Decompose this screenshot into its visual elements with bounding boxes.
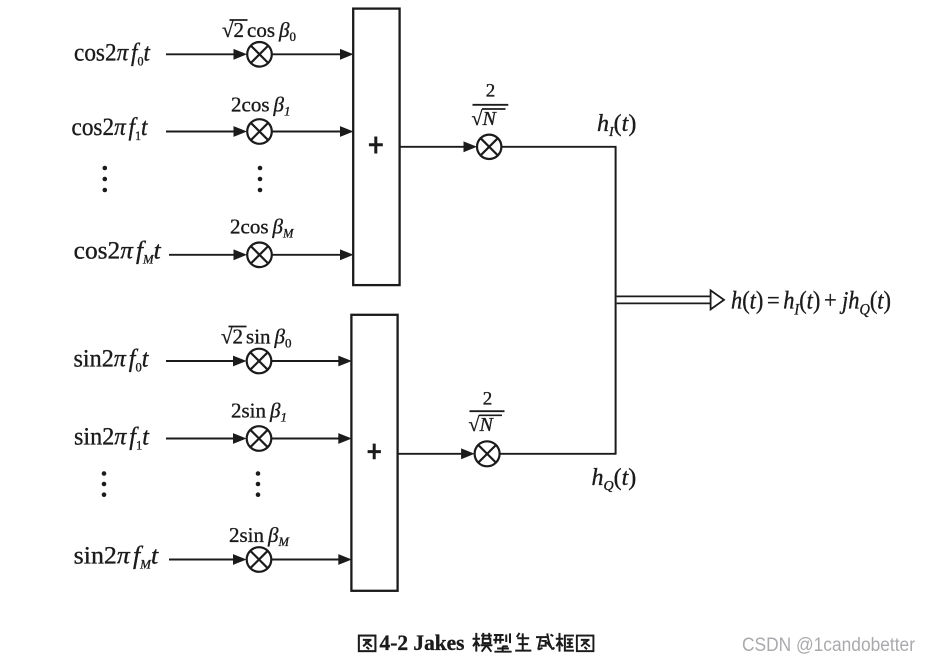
arrowhead into multiplier M3 (234, 249, 248, 260)
arrowhead into multiplier M7 (233, 554, 247, 565)
svg-text:√2sinβ0: √2sinβ0 (221, 325, 292, 351)
radical bar over N (lower) (479, 414, 502, 416)
caption char: tu (figure) (359, 636, 376, 652)
wire: M5 to summer S2 (271, 360, 340, 362)
wire: sin fM input (169, 559, 236, 561)
wire: sin f1 input (166, 438, 236, 440)
arrowhead into S1 (row 2) (340, 126, 354, 137)
arrowhead into S2 (row 2) (338, 433, 352, 444)
plus sign in S1 (369, 137, 383, 154)
svg-text:2sinβ1: 2sinβ1 (231, 399, 287, 425)
wire: M1 to summer S1 (272, 53, 342, 55)
caption char: tu (figure, second) (577, 636, 594, 652)
radical bar over 2 (label M5) (229, 326, 247, 328)
svg-text:2sinβM: 2sinβM (229, 523, 289, 549)
wire: M2 to summer S1 (272, 131, 342, 133)
wire: vertical bus joining hI and hQ (615, 147, 617, 454)
svg-text:2cosβ1: 2cosβ1 (231, 93, 290, 119)
caption: figure 4-2 (359, 630, 594, 655)
wire: M4 to corner node (502, 146, 617, 148)
wire: M6 to summer S2 (271, 438, 340, 440)
svg-text:√N: √N (469, 414, 495, 436)
multiplier M3 (247, 243, 272, 268)
caption char: xing (type) (493, 633, 511, 651)
wire: M8 to corner node (500, 453, 617, 455)
caption char: sheng (generate) (515, 633, 531, 651)
svg-text:sin2πf1t: sin2πf1t (74, 424, 150, 453)
caption char: mo (model) (473, 633, 493, 652)
svg-text:2: 2 (486, 81, 496, 102)
svg-text:sin2πf0t: sin2πf0t (74, 346, 150, 375)
arrowhead into S1 (row 1) (340, 49, 354, 60)
arrowhead into multiplier M6 (233, 433, 247, 444)
arrowhead into S1 (row 3) (340, 249, 354, 260)
arrowhead into multiplier M8 (461, 448, 475, 459)
plus sign in S2 (368, 444, 381, 460)
vertical ellipsis dots (multiplier column, upper) (258, 166, 263, 193)
vertical ellipsis dots (multiplier column, lower) (256, 471, 261, 497)
wire: cos f0 input (166, 53, 238, 55)
arrowhead into S2 (row 1) (338, 356, 352, 367)
arrowhead into multiplier M2 (234, 126, 248, 137)
multiplier M5 (247, 349, 272, 374)
multiplier M1 (247, 42, 272, 67)
svg-text:4-2 Jakes: 4-2 Jakes (380, 630, 465, 655)
wire: M3 to summer S1 (272, 254, 342, 256)
vertical ellipsis dots (left, lower) (102, 471, 107, 497)
caption char: kuang (frame) (556, 633, 574, 652)
summer box S2 (lower) (351, 315, 397, 591)
svg-text:cos2πf0t: cos2πf0t (74, 39, 151, 68)
arrowhead into multiplier M4 (464, 141, 478, 152)
arrowhead into multiplier M1 (234, 49, 248, 60)
wire: cos fM input (169, 254, 238, 256)
svg-text:cos2πf1t: cos2πf1t (72, 114, 149, 143)
hollow arrowhead (output h(t)) (711, 290, 724, 309)
svg-text:hI(t): hI(t) (597, 111, 636, 140)
summer box S1 (upper) (353, 9, 399, 286)
multiplier M7 (247, 547, 272, 572)
svg-text:cos2πfMt: cos2πfMt (74, 238, 162, 267)
wire: cos f1 input (166, 131, 238, 133)
wire: S1 output (400, 146, 467, 148)
hollow arrow shaft (output h(t)) (617, 296, 711, 303)
svg-text:h(t)=hI(t)+jhQ(t): h(t)=hI(t)+jhQ(t) (731, 287, 891, 318)
caption char: cheng (become) (536, 633, 554, 649)
arrowhead into multiplier M5 (233, 356, 247, 367)
multiplier M2 (247, 119, 272, 144)
multiplier M6 (247, 426, 272, 451)
svg-text:√2cosβ0: √2cosβ0 (222, 18, 296, 44)
svg-text:hQ(t): hQ(t) (592, 465, 637, 494)
svg-text:CSDN @1candobetter: CSDN @1candobetter (742, 635, 916, 656)
wire: M7 to summer S2 (271, 559, 340, 561)
svg-text:2: 2 (483, 388, 493, 409)
radical bar over N (upper) (482, 108, 506, 110)
svg-text:sin2πfMt: sin2πfMt (74, 543, 160, 572)
arrowhead into S2 (row 3) (338, 554, 352, 565)
svg-text:√N: √N (472, 108, 498, 130)
fraction bar (upper) (473, 104, 509, 106)
wire: sin f0 input (166, 360, 236, 362)
fraction bar (lower) (470, 410, 505, 412)
wire: S2 output (398, 453, 464, 455)
svg-text:2cosβM: 2cosβM (230, 215, 294, 241)
vertical ellipsis dots (left, upper) (103, 166, 108, 193)
multiplier M8 (2/sqrtN lower) (475, 441, 500, 466)
radical bar over 2 (label M1) (230, 19, 248, 21)
multiplier M4 (2/sqrtN upper) (477, 135, 501, 159)
